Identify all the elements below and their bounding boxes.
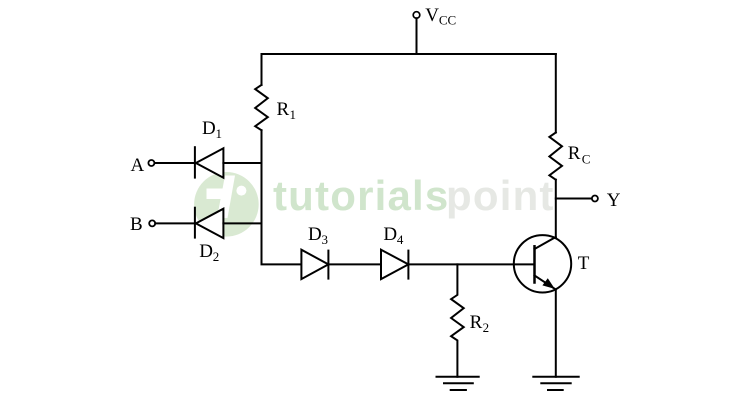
label R2	[470, 312, 490, 335]
svg-text:V: V	[425, 5, 439, 26]
node Y output terminal	[592, 196, 598, 202]
resistor R1	[255, 85, 268, 130]
resistor RC	[549, 133, 562, 180]
svg-text:3: 3	[322, 232, 329, 247]
diode D2	[195, 208, 224, 238]
svg-text:1: 1	[290, 107, 297, 122]
svg-text:2: 2	[213, 249, 220, 264]
svg-text:D: D	[202, 118, 216, 139]
wire: emitter to ground	[555, 290, 557, 377]
node A input terminal	[148, 160, 154, 166]
wire: D3 cathode to D4 anode	[328, 263, 381, 265]
label Vcc	[425, 5, 456, 28]
label D1	[202, 118, 222, 141]
svg-text:4: 4	[397, 232, 404, 247]
svg-text:R: R	[470, 312, 483, 333]
svg-text:R: R	[277, 99, 290, 120]
wire: RC to collector	[555, 180, 557, 237]
svg-text:Y: Y	[607, 190, 621, 211]
label RC	[568, 143, 591, 167]
resistor R2	[451, 264, 464, 376]
wire: left bus lower segment to D3	[262, 130, 302, 264]
wire: left bus upper segment	[261, 54, 263, 85]
svg-text:1: 1	[216, 126, 223, 141]
svg-text:tutorials: tutorials	[273, 172, 449, 219]
label D2	[199, 241, 219, 264]
diode D1	[195, 147, 224, 178]
wire: Vcc top rail	[262, 53, 556, 55]
diode D3	[301, 250, 328, 279]
wire: D4 cathode to transistor base (junction with R2)	[408, 263, 534, 265]
label D3	[308, 224, 328, 247]
svg-text:T: T	[578, 253, 590, 274]
wire: right rail upper segment	[555, 54, 557, 133]
wire: D1 anode to bus	[223, 162, 261, 164]
label D4	[383, 224, 404, 247]
svg-text:CC: CC	[439, 13, 456, 28]
ground under emitter	[533, 377, 578, 390]
wire: D2 anode to bus	[223, 222, 261, 224]
wire: B terminal to D2	[155, 222, 195, 224]
svg-text:2: 2	[483, 320, 490, 335]
transistor T	[514, 235, 571, 292]
svg-text:D: D	[308, 224, 322, 245]
svg-text:A: A	[131, 155, 145, 176]
wire: Y output branch	[556, 198, 592, 200]
wire: A terminal to D1	[155, 162, 195, 164]
node B input terminal	[149, 220, 155, 226]
ground under R2	[437, 377, 479, 390]
svg-text:C: C	[582, 152, 591, 167]
label R1	[277, 99, 297, 122]
svg-text:R: R	[568, 143, 581, 164]
svg-text:D: D	[199, 241, 213, 262]
diode D4	[381, 250, 408, 279]
power Vcc terminal	[413, 12, 420, 54]
svg-text:D: D	[383, 224, 397, 245]
svg-text:B: B	[130, 214, 143, 235]
svg-text:point: point	[446, 172, 555, 219]
